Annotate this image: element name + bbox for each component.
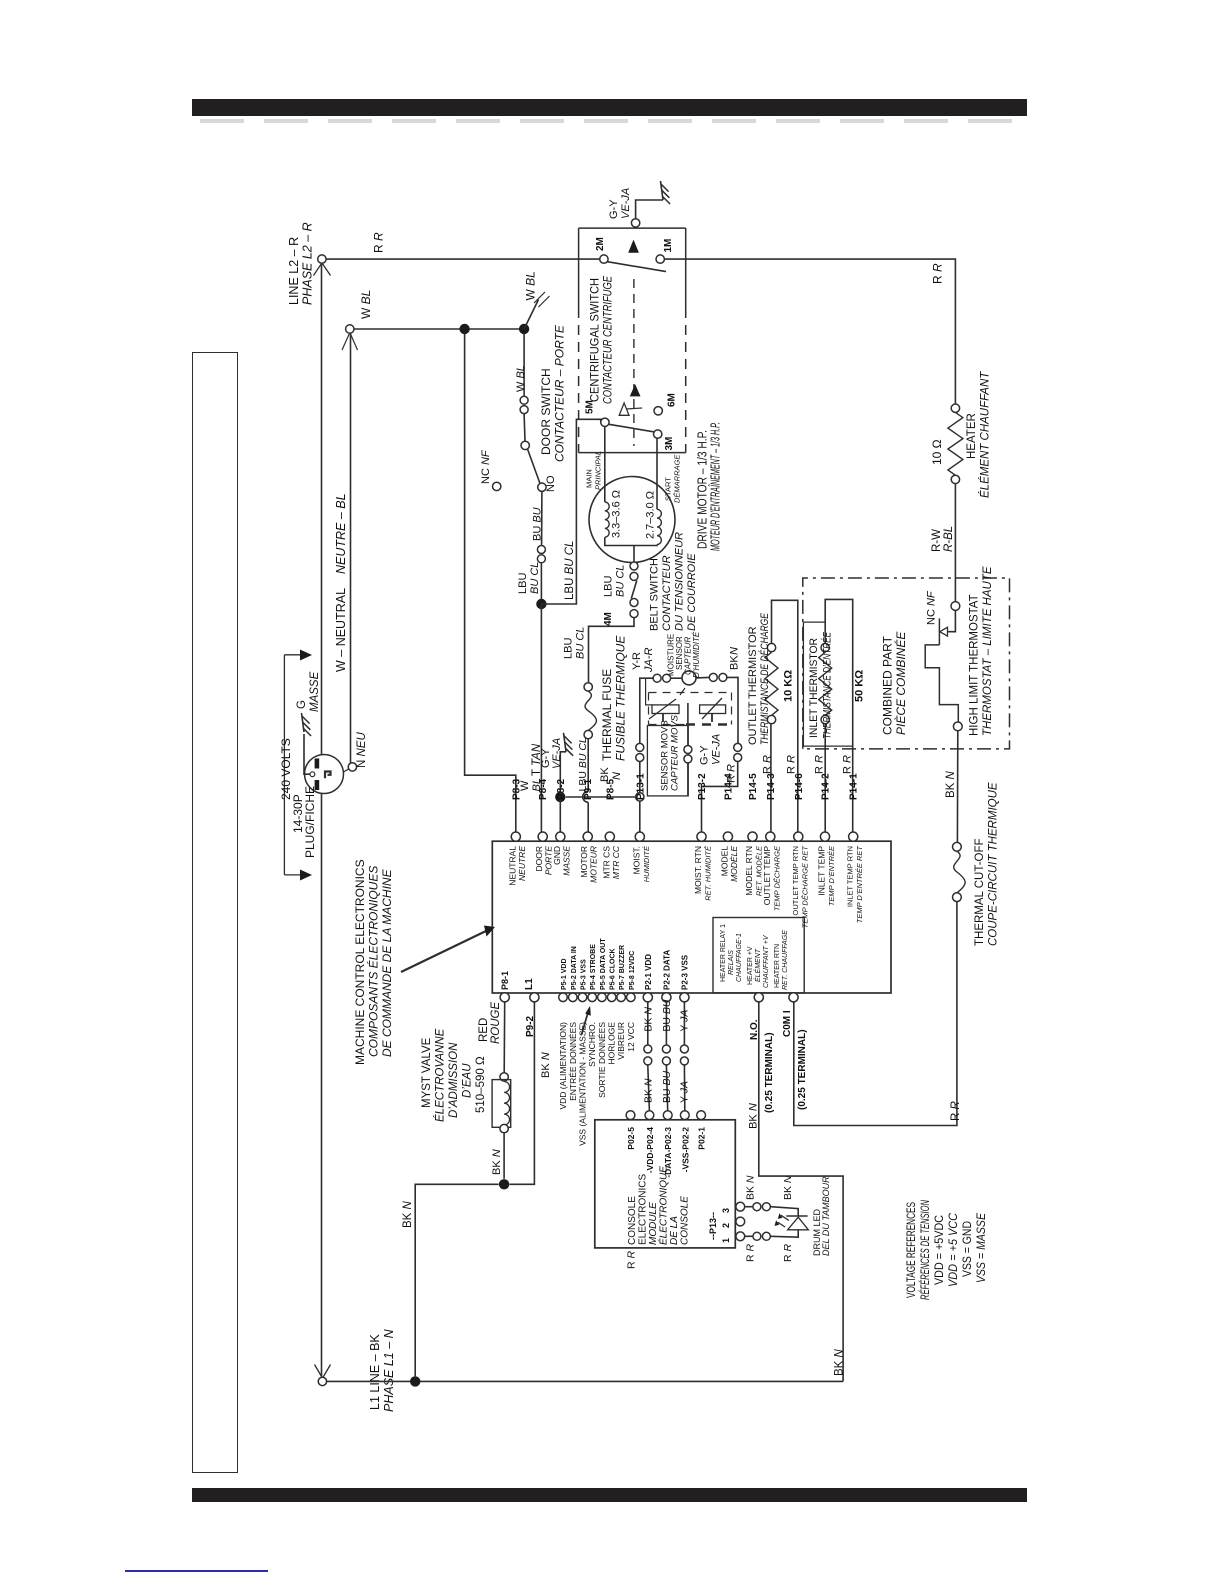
svg-text:START: START [664,477,673,501]
inlet thermistor RT2 50k [824,724,826,832]
svg-text:MOTOR: MOTOR [579,846,589,877]
plug 14-30P body [305,755,344,794]
svg-text:D’EAU: D’EAU [462,1063,474,1098]
node 2M [600,255,608,263]
svg-text:BU CL: BU CL [575,627,587,659]
svg-text:MODEL RTN: MODEL RTN [744,846,754,896]
svg-text:P14-1: P14-1 [849,773,860,800]
pin N.O. [754,993,763,1002]
svg-text:BK N: BK N [945,770,957,798]
svg-text:INLET THERMISTOR: INLET THERMISTOR [808,638,820,738]
svg-text:BK N: BK N [402,1200,414,1228]
svg-text:BU BU: BU BU [661,1070,673,1103]
svg-text:HIGH LIMIT THERMOSTAT: HIGH LIMIT THERMOSTAT [969,594,981,736]
svg-text:BK N: BK N [748,1103,760,1129]
svg-text:SORTIE DONNÉES: SORTIE DONNÉES [597,1022,607,1098]
svg-text:CAPTEUR MOVS: CAPTEUR MOVS [670,714,681,791]
svg-text:COUPE-CIRCUIT THERMIQUE: COUPE-CIRCUIT THERMIQUE [988,782,1000,946]
heater relay sub-box [713,918,804,993]
blade 2M-1M [607,262,666,272]
svg-text:MODÈLE: MODÈLE [729,846,739,882]
svg-text:P5-6 CLOCK: P5-6 CLOCK [610,948,617,990]
svg-text:NEUTRE – BL: NEUTRE – BL [334,493,348,574]
connector pair door top [520,396,528,404]
svg-text:P2-3 VSS: P2-3 VSS [680,954,689,990]
svg-text:THERMOSTAT – LIMITE HAUTE: THERMOSTAT – LIMITE HAUTE [982,566,994,736]
pin P02 [645,1111,654,1120]
svg-text:CONSOLE: CONSOLE [627,1196,638,1245]
blade 5M-3M [609,424,654,432]
svg-text:BK N: BK N [491,1149,503,1175]
pin P14-3 [766,832,775,841]
svg-text:G-Y: G-Y [608,199,620,219]
wire console pin3 to LED [745,1206,753,1208]
svg-text:THERMISTANCE DE DÉCHARGE: THERMISTANCE DE DÉCHARGE [758,612,771,745]
svg-text:R-W: R-W [931,529,943,552]
wire BK N to L1 bus [415,1184,499,1376]
svg-text:CONTACTEUR: CONTACTEUR [661,555,673,631]
svg-text:R R: R R [762,755,774,774]
left sidebar box [192,352,238,1473]
svg-text:PHASE L1 – N: PHASE L1 – N [382,1328,396,1412]
svg-text:C0M I: C0M I [782,1010,793,1037]
connector pair door bottom [537,546,545,554]
actuator open triangle [619,403,629,415]
pin P5-4 [588,993,597,1002]
svg-text:HUMIDITÉ: HUMIDITÉ [642,845,651,882]
svg-text:RÉFÉRENCES DE TENSION: RÉFÉRENCES DE TENSION [919,1200,932,1300]
belt switch blade [631,581,637,599]
belt switch connector pair bottom [630,599,638,607]
svg-text:10 Ω: 10 Ω [930,439,944,465]
wire to COM I [794,902,957,1126]
cam triangle 2 [630,384,641,396]
svg-text:RET. CHAUFFAGE: RET. CHAUFFAGE [782,930,789,990]
wire: neutral W from plug N to W BL terminal [350,334,352,763]
svg-text:BU BU: BU BU [532,507,544,541]
svg-text:R R: R R [950,1101,962,1121]
svg-text:LINE L2 – R: LINE L2 – R [287,237,301,305]
svg-text:R R: R R [745,1244,757,1263]
svg-text:INLET TEMP RTN: INLET TEMP RTN [846,846,855,907]
svg-text:LBU: LBU [517,573,529,594]
svg-text:1: 1 [721,1238,731,1243]
svg-text:P8-1: P8-1 [500,971,510,990]
svg-text:TEMP DÉCHARGE: TEMP DÉCHARGE [772,845,781,911]
svg-text:D’HUMIDITÉ: D’HUMIDITÉ [692,631,701,678]
svg-text:HEATER RELAY 1: HEATER RELAY 1 [720,924,727,982]
svg-text:BK N: BK N [834,1348,846,1376]
svg-text:OUTLET TEMP: OUTLET TEMP [762,846,772,906]
pin P8-1 [500,993,509,1002]
junction W BL 1 [459,324,469,334]
pin P14-5 [748,832,757,841]
svg-text:HEATER +V: HEATER +V [747,946,754,985]
svg-text:PHASE L2 – R: PHASE L2 – R [301,222,315,305]
sensor dashed enclosure [649,692,732,694]
svg-text:DE COMMANDE DE LA MACHINE: DE COMMANDE DE LA MACHINE [380,868,394,1057]
pin P9-1 [583,832,592,841]
ground symbol at plug [302,713,305,732]
pin P5-6 [607,993,616,1002]
machine control callout arrow [401,931,487,973]
wire BK to thermal cutoff [956,731,958,843]
svg-text:-VSS-P02-2: -VSS-P02-2 [680,1127,690,1173]
svg-text:10 KΩ: 10 KΩ [783,670,795,702]
svg-text:R R: R R [786,755,798,774]
pin P02 [663,1111,672,1120]
pin P8-4 [538,832,547,841]
svg-text:L1: L1 [524,978,535,990]
svg-text:CENTRIFUGAL SWITCH: CENTRIFUGAL SWITCH [588,278,602,402]
pin P5-8 [627,993,636,1002]
svg-text:THERMAL FUSE: THERMAL FUSE [600,669,614,761]
pin P13-2 [697,832,706,841]
node W BL terminal [346,325,354,333]
svg-text:INLET TEMP: INLET TEMP [817,846,827,896]
moisture sensor electrode circle [682,671,696,685]
wire R: 1M to heater [664,259,955,404]
pin P5-5 [598,993,607,1002]
svg-text:MTR CS: MTR CS [601,846,611,879]
svg-text:P2-1 VDD: P2-1 VDD [644,954,653,990]
svg-text:BELT SWITCH: BELT SWITCH [649,558,661,631]
plug ground pin [310,772,315,777]
motor lead down [633,546,635,562]
pin P2-3 [680,993,689,1002]
pin P14-6 [794,832,803,841]
svg-text:VE-JA: VE-JA [551,738,563,769]
svg-text:3M: 3M [664,437,675,451]
pin L1 [530,993,539,1002]
stub arrow to W BL elsewhere [524,300,538,330]
svg-text:D’ADMISSION: D’ADMISSION [448,1042,460,1118]
wire BK N: board L1 pin down [510,1002,535,1184]
svg-text:12 VCC: 12 VCC [626,1022,636,1052]
main winding lead [604,427,606,503]
svg-text:MASSE: MASSE [561,846,571,876]
svg-text:-VDD-P02-4: -VDD-P02-4 [645,1127,655,1174]
svg-text:P2-2 DATA: P2-2 DATA [662,950,671,990]
svg-text:N: N [611,772,623,780]
svg-text:VSS = MASSE: VSS = MASSE [976,1213,988,1283]
svg-text:Y JA: Y JA [678,1081,690,1103]
svg-text:NEUTRE: NEUTRE [517,846,527,881]
svg-text:P8-4: P8-4 [538,778,549,800]
pin C0M I [789,993,798,1002]
svg-text:VOLTAGE REFERENCES: VOLTAGE REFERENCES [906,1202,918,1298]
svg-text:BU CL: BU CL [529,562,541,594]
svg-text:P02-1: P02-1 [697,1127,707,1150]
svg-text:ÉLÉMENT: ÉLÉMENT [753,948,762,982]
svg-text:6M: 6M [667,393,678,407]
svg-text:MYST VALVE: MYST VALVE [421,1037,433,1108]
svg-text:DE COURROIE: DE COURROIE [686,553,698,631]
wire console harness [647,1002,649,1045]
node NO [538,483,546,491]
svg-text:DÉMARRAGE: DÉMARRAGE [673,454,682,503]
svg-text:BK N: BK N [643,1078,655,1103]
svg-text:2M: 2M [595,237,606,251]
svg-text:BU CL: BU CL [615,565,627,597]
svg-text:ELECTRONICS: ELECTRONICS [638,1174,649,1245]
wire BK N: relay N.O. to L1 bus [759,1002,843,1382]
svg-text:CONSOLE: CONSOLE [680,1196,691,1245]
wire: plug ground lead [304,734,310,774]
svg-text:SYNCHRO.: SYNCHRO. [587,1022,597,1067]
pin P5-2 [569,993,578,1002]
machine control board box [492,841,891,993]
wire BK N moisture return [566,796,636,798]
wire 4M to thermal fuse [589,618,635,683]
svg-text:VSS (ALIMENTATION - MASSE): VSS (ALIMENTATION - MASSE) [578,1022,588,1146]
wire: L1 bus [327,1380,843,1382]
svg-text:BK N: BK N [782,1175,794,1200]
thermal cut-off F2 [953,842,962,851]
svg-text:VDD (ALIMENTATION): VDD (ALIMENTATION) [558,1022,568,1110]
svg-text:MOTEUR D’ENTRAÎNEMENT – 1/3 H.: MOTEUR D’ENTRAÎNEMENT – 1/3 H.P. [708,422,723,551]
svg-text:DEL DU TAMBOUR: DEL DU TAMBOUR [821,1176,831,1256]
junction door/motor [536,599,546,609]
G-Y sensor frame lead [687,703,689,745]
wire R-W to thermostat [954,484,956,602]
plug neutral L-slot [325,772,331,779]
combined part dash-dot box [803,578,1010,749]
svg-text:ENTRÉE DONNÉES: ENTRÉE DONNÉES [568,1022,578,1101]
wire R: L2 rail to centrifugal switch 2M [327,258,601,260]
svg-text:THERMAL CUT-OFF: THERMAL CUT-OFF [974,838,986,946]
high limit thermostat S3 [951,602,960,611]
svg-text:HEATER RTN: HEATER RTN [774,944,781,988]
svg-text:DE LA: DE LA [669,1216,680,1245]
centrifugal switch box [579,227,686,229]
svg-text:VSS = GND: VSS = GND [962,1221,974,1277]
svg-text:MOIST. RTN: MOIST. RTN [693,846,703,894]
svg-text:PLUG/FICHE: PLUG/FICHE [303,786,317,858]
sensor movs frame [647,726,688,796]
svg-text:W BL: W BL [515,365,527,392]
svg-text:LBU BU CL: LBU BU CL [564,541,576,600]
svg-text:NO: NO [545,475,557,492]
pin P2-2 [662,993,671,1002]
wire T TAN: to board P8-4 (DOOR) [540,604,542,832]
node NC NF [493,482,501,490]
svg-text:(0.25 TERMINAL): (0.25 TERMINAL) [797,1029,808,1110]
svg-text:RED: RED [478,1018,490,1042]
svg-text:P14-5: P14-5 [748,773,759,800]
svg-text:RELAIS: RELAIS [728,950,735,975]
svg-text:2: 2 [721,1223,731,1228]
svg-text:1M: 1M [663,239,674,253]
svg-text:COMBINED PART: COMBINED PART [881,635,895,735]
pin P13-1 [635,832,644,841]
svg-text:P8-3: P8-3 [511,778,522,800]
plug hot slots [315,759,320,769]
svg-text:L1 LINE – BK: L1 LINE – BK [368,1334,382,1410]
top header bar [192,99,1027,116]
svg-text:VDD = +5 VCC: VDD = +5 VCC [948,1212,960,1287]
svg-text:BK N: BK N [745,1175,757,1200]
bottom footer bar [192,1488,1027,1502]
pin P02 [680,1111,689,1120]
svg-text:P8-5: P8-5 [605,778,616,800]
pin P2-1 [643,993,652,1002]
pin P02-5 [626,1111,635,1120]
svg-text:Y JA: Y JA [678,1010,690,1032]
node 6M [654,407,662,415]
svg-text:VE-JA: VE-JA [620,188,632,219]
svg-text:P5-7 BUZZER: P5-7 BUZZER [619,945,626,990]
svg-text:R R: R R [931,263,945,284]
svg-text:R R: R R [842,755,854,774]
cam triangle 1 [628,240,639,253]
pin P13 console 1 [736,1232,745,1241]
pin P14-2 [820,832,829,841]
junction valve/L1 [499,1179,509,1189]
sensor electrode bar 1 [652,705,679,714]
wire P13-1 [639,801,641,832]
svg-text:W – NEUTRAL: W – NEUTRAL [334,588,348,672]
svg-text:GND: GND [552,846,562,865]
drive motor circle U-M1 [589,477,675,563]
svg-text:MODULE: MODULE [648,1202,659,1245]
heater element R-H 10 ohm [951,404,959,412]
svg-text:BU BU: BU BU [661,999,673,1032]
moisture sensor wiring top [639,762,641,793]
svg-text:BK: BK [729,655,741,670]
svg-text:NC NF: NC NF [926,590,938,625]
wire below fuse with hop [587,739,589,792]
svg-text:DU TENSIONNEUR: DU TENSIONNEUR [674,532,686,631]
svg-text:W BL: W BL [524,271,538,300]
svg-text:P13-2: P13-2 [697,773,708,800]
node L1: LINE L1 terminal [318,1377,326,1385]
pin P5-3 [578,993,587,1002]
svg-text:P14-2: P14-2 [821,773,832,800]
svg-text:P5-4 STROBE: P5-4 STROBE [590,944,597,990]
svg-text:R R: R R [814,755,826,774]
svg-text:MTR CC: MTR CC [611,845,621,879]
svg-text:--P13--: --P13-- [708,1212,718,1240]
wire: door junction to 5M [541,419,600,604]
svg-text:50 KΩ: 50 KΩ [854,670,866,702]
svg-text:G-Y: G-Y [699,745,711,765]
pin P5-7 [617,993,626,1002]
svg-text:ÉLECTROVANNE: ÉLECTROVANNE [434,1028,447,1122]
svg-text:N NEU: N NEU [356,732,368,768]
svg-text:CONTACTEUR CENTRIFUGE: CONTACTEUR CENTRIFUGE [601,275,615,404]
svg-text:P14-4: P14-4 [723,773,734,800]
bracket: 240 VOLTS measurement [284,654,304,656]
svg-text:(0.25 TERMINAL): (0.25 TERMINAL) [764,1032,775,1113]
svg-text:MOIST.: MOIST. [631,846,641,874]
svg-text:3.3–3.6 Ω: 3.3–3.6 Ω [611,490,623,538]
svg-text:P14-6: P14-6 [794,773,805,800]
inlet assembly bracket [803,621,825,623]
outlet thermistor RT1 10k [770,724,772,832]
wire: L1-L2 vertical supply line through plug [321,264,323,1377]
svg-text:COMPOSANTS ÉLECTRONIQUES: COMPOSANTS ÉLECTRONIQUES [366,866,381,1057]
svg-text:MACHINE CONTROL ELECTRONICS: MACHINE CONTROL ELECTRONICS [353,859,367,1065]
pin P8-5 [605,832,614,841]
node 1M [656,255,664,263]
svg-text:NC NF: NC NF [480,449,492,484]
node 3M [654,430,662,438]
wire below NO [541,492,543,546]
svg-text:BK N: BK N [643,1007,655,1032]
svg-text:DRIVE MOTOR – 1/3 H.P.: DRIVE MOTOR – 1/3 H.P. [696,430,710,549]
svg-text:LBU: LBU [563,638,575,659]
winding junction [605,537,657,545]
wire: to door switch [523,334,525,396]
svg-text:N: N [729,647,741,655]
wire console harness [683,1002,685,1045]
node 5M [601,418,609,426]
svg-text:TEMP D’ENTRÉE: TEMP D’ENTRÉE [827,845,836,906]
svg-text:3: 3 [721,1208,731,1213]
wire W BL: to board P8-3 (NEUTRAL) [465,334,516,832]
svg-text:JA-R: JA-R [643,648,655,674]
start winding lead to 3M [656,439,658,510]
pin P02-1 [697,1111,706,1120]
svg-text:HEATER: HEATER [966,413,978,459]
svg-text:FUSIBLE THERMIQUE: FUSIBLE THERMIQUE [614,635,628,761]
svg-text:P5-8 12VDC: P5-8 12VDC [629,951,636,990]
svg-text:TEMP DÉCHARGE RET: TEMP DÉCHARGE RET [800,845,809,929]
svg-text:2.7–3.0 Ω: 2.7–3.0 Ω [645,491,657,539]
svg-text:Y-R: Y-R [631,652,643,670]
svg-text:MODEL: MODEL [719,846,729,877]
wire: W BL distribution [354,328,524,330]
svg-text:MOTEUR: MOTEUR [589,846,599,883]
node L2: LINE L2 terminal [318,255,326,263]
svg-text:BK N: BK N [540,1052,552,1078]
wire BK: valve to junction [503,1133,505,1179]
thermal fuse F1 [584,683,592,691]
wire console pin1 to LED [745,1235,753,1237]
svg-text:VDD = +5VDC: VDD = +5VDC [934,1215,946,1285]
door switch blade [528,449,541,484]
svg-text:P9-2: P9-2 [525,1015,536,1037]
svg-text:MASSE: MASSE [309,671,321,712]
svg-text:DOOR SWITCH: DOOR SWITCH [539,368,553,455]
junction on L1 bus [410,1376,420,1386]
wire console harness [665,1002,667,1045]
svg-text:P02-5: P02-5 [626,1127,636,1150]
mechanical link dashed [633,279,635,446]
svg-text:NEUTRAL: NEUTRAL [507,846,517,886]
arrow to P5 connector [582,1012,589,1035]
svg-text:P5-1 VDD: P5-1 VDD [561,958,568,990]
svg-text:-DATA-P02-3: -DATA-P02-3 [663,1127,673,1178]
pin P8-3 [511,832,520,841]
wire RED: P8-1 to valve [503,1002,506,1073]
svg-text:OUTLET THERMISTOR: OUTLET THERMISTOR [747,626,759,745]
pin P13 console 3 [736,1202,745,1211]
svg-text:PIÈCE COMBINÉE: PIÈCE COMBINÉE [893,631,908,735]
svg-text:P13-1: P13-1 [635,773,646,800]
svg-text:G: G [296,700,308,709]
svg-text:P5-5 DATA OUT: P5-5 DATA OUT [600,938,607,990]
svg-text:R-BL: R-BL [943,526,955,552]
svg-text:P14-3: P14-3 [766,773,777,800]
svg-text:TEMP D’ENTRÉE RET: TEMP D’ENTRÉE RET [855,845,864,924]
svg-text:RET. HUMIDITÉ: RET. HUMIDITÉ [704,845,713,901]
svg-text:5M: 5M [585,400,596,414]
ghost text under bar [200,119,1028,123]
svg-text:PRINCIPAL: PRINCIPAL [594,451,603,490]
pin P8-2 [556,832,565,841]
